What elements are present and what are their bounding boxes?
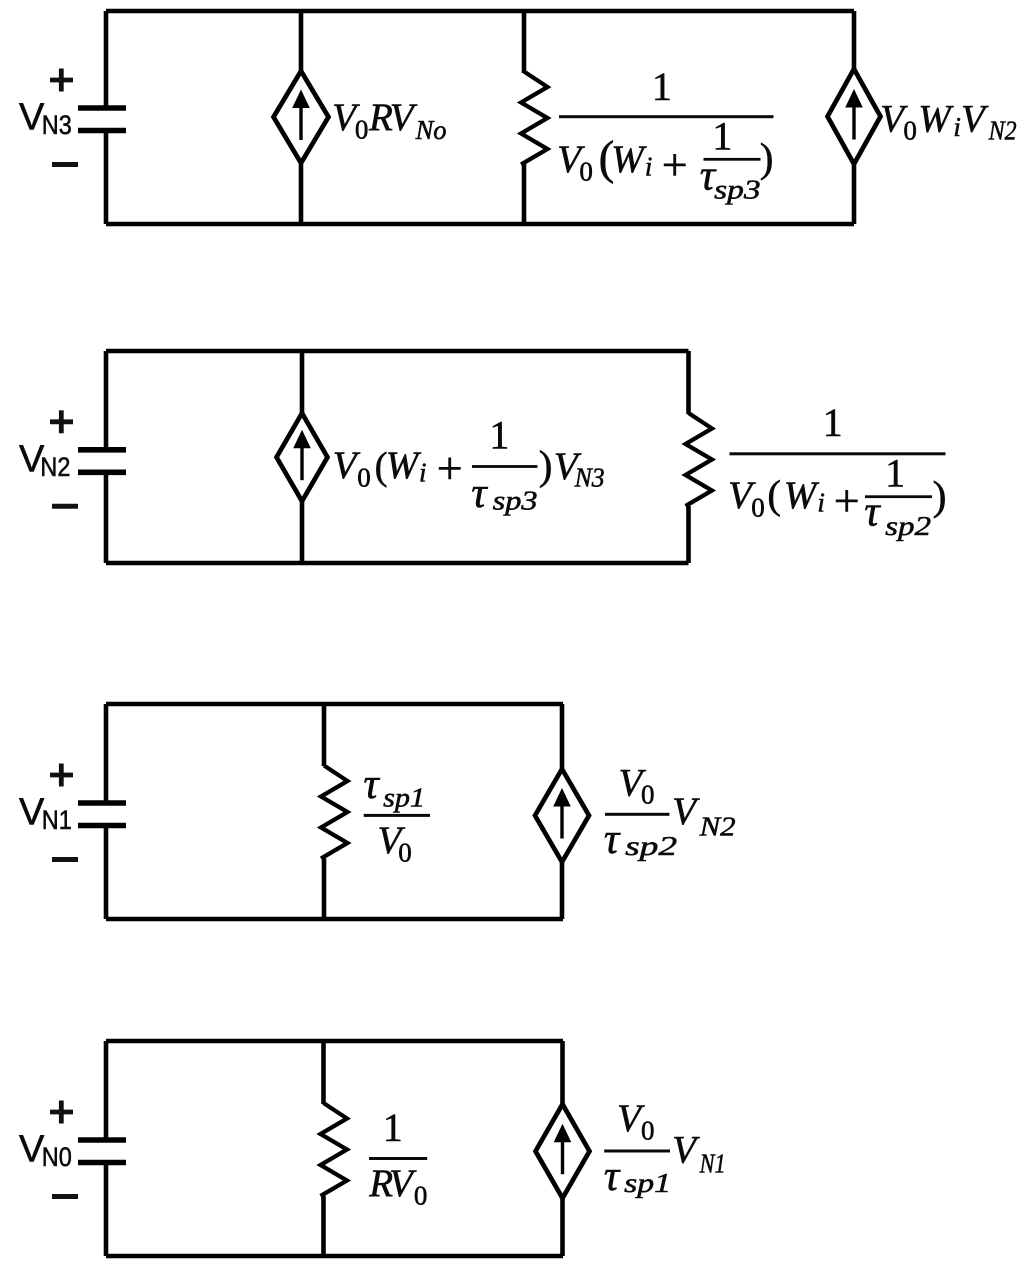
svg-text:1: 1 xyxy=(383,1105,403,1150)
svg-text:0: 0 xyxy=(641,1116,655,1146)
svg-text:sp3: sp3 xyxy=(714,175,761,205)
svg-text:0: 0 xyxy=(398,838,412,868)
svg-text:W: W xyxy=(784,474,820,517)
svg-text:τ: τ xyxy=(471,470,488,517)
svg-text:0: 0 xyxy=(641,780,655,810)
svg-text:+: + xyxy=(662,139,688,190)
svg-text:+: + xyxy=(437,443,463,494)
svg-text:N3: N3 xyxy=(42,110,72,140)
svg-text:V: V xyxy=(390,96,418,139)
svg-text:0: 0 xyxy=(355,115,369,145)
svg-text:i: i xyxy=(817,488,825,518)
svg-text:+: + xyxy=(834,475,860,526)
svg-text:V: V xyxy=(672,1129,700,1172)
svg-text:0: 0 xyxy=(903,116,917,146)
svg-text:1: 1 xyxy=(652,64,672,109)
svg-text:V: V xyxy=(961,98,989,141)
svg-text:N2: N2 xyxy=(698,812,735,842)
svg-text:1: 1 xyxy=(885,451,905,496)
svg-text:N1: N1 xyxy=(699,1149,726,1179)
svg-text:τ: τ xyxy=(604,816,621,863)
svg-text:sp1: sp1 xyxy=(624,1168,671,1198)
svg-text:(: ( xyxy=(767,472,781,517)
svg-text:N2: N2 xyxy=(40,452,70,482)
svg-text:0: 0 xyxy=(414,1181,428,1211)
svg-text:i: i xyxy=(645,152,653,182)
svg-text:i: i xyxy=(953,112,961,142)
svg-text:N0: N0 xyxy=(42,1142,72,1172)
svg-text:W: W xyxy=(611,138,647,181)
svg-text:i: i xyxy=(419,458,427,488)
svg-text:No: No xyxy=(415,115,447,145)
svg-text:N2: N2 xyxy=(988,116,1017,146)
svg-text:1: 1 xyxy=(489,413,509,458)
svg-text:V: V xyxy=(672,790,700,833)
svg-text:1: 1 xyxy=(712,114,732,159)
svg-text:sp1: sp1 xyxy=(383,783,425,813)
svg-text:V: V xyxy=(389,1162,417,1205)
svg-text:τ: τ xyxy=(864,489,881,536)
svg-text:sp2: sp2 xyxy=(885,511,931,541)
svg-text:0: 0 xyxy=(579,157,593,187)
svg-text:0: 0 xyxy=(751,493,765,523)
svg-text:W: W xyxy=(386,444,422,487)
svg-text:N3: N3 xyxy=(574,463,605,493)
svg-text:W: W xyxy=(918,98,954,141)
svg-text:τ: τ xyxy=(363,761,380,808)
svg-text:sp2: sp2 xyxy=(625,831,677,861)
svg-text:): ) xyxy=(760,134,774,180)
svg-text:0: 0 xyxy=(357,463,371,493)
svg-text:τ: τ xyxy=(604,1153,621,1200)
svg-text:sp3: sp3 xyxy=(493,486,538,516)
svg-text:1: 1 xyxy=(823,400,843,445)
svg-text:N1: N1 xyxy=(42,805,72,835)
svg-text:): ) xyxy=(933,473,947,520)
svg-text:): ) xyxy=(539,442,553,488)
